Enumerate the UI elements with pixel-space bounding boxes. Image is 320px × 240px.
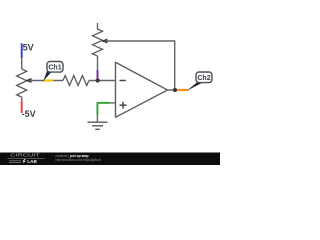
svg-text:CIRCUIT: CIRCUIT [10, 153, 40, 158]
svg-text:LAB: LAB [27, 159, 37, 164]
svg-text:5V: 5V [23, 43, 34, 53]
svg-text:Ch1: Ch1 [48, 64, 61, 71]
svg-text:http://circuitlab.com/c/h8pu3j: http://circuitlab.com/c/h8pu3jdifwu9 [56, 158, 102, 162]
svg-text:Ch2: Ch2 [197, 75, 210, 82]
svg-text:-5V: -5V [22, 109, 36, 119]
